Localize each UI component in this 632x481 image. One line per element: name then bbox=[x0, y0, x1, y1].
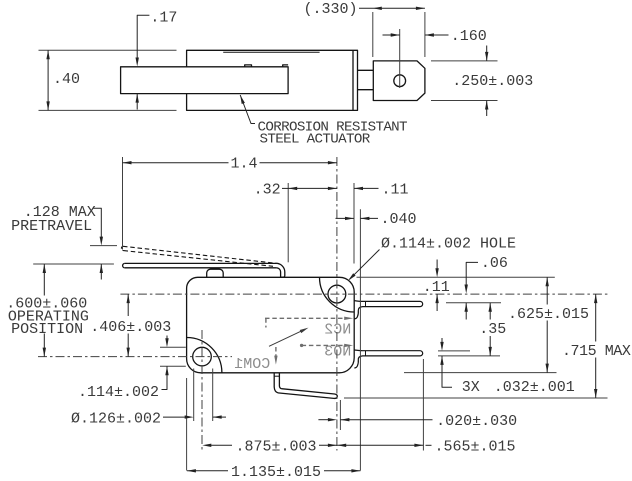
extension: NC pin top edge (for .06/.35) bbox=[446, 302, 501, 304]
main view: corner boss arc around mounting hole bbox=[187, 338, 222, 373]
main view: COM terminal neck below body bbox=[274, 373, 281, 393]
svg-text:.032±.001: .032±.001 bbox=[494, 379, 575, 396]
svg-text:.35: .35 bbox=[479, 321, 506, 338]
dim .250: extension lines bbox=[431, 60, 498, 62]
svg-text:Ø.114±.002 HOLE: Ø.114±.002 HOLE bbox=[381, 236, 516, 253]
svg-text:.565±.015: .565±.015 bbox=[435, 439, 516, 456]
dim 1.4: line with arrows bbox=[123, 162, 229, 164]
schematic: dashed line to NC terminal with arrow bbox=[265, 317, 349, 319]
svg-text:3X: 3X bbox=[462, 379, 480, 396]
centerline: terminal-side hole horizontal bbox=[120, 293, 608, 295]
extension: mounting hole top tangent (for .114) bbox=[160, 346, 186, 348]
main view: COM terminal collar tick bbox=[274, 375, 279, 377]
schematic: NO contact dot bbox=[300, 344, 303, 347]
svg-text:1.135±.015: 1.135±.015 bbox=[231, 464, 321, 481]
right terminal NO: neck upper curve bbox=[354, 349, 362, 352]
dim .32: line with arrows bbox=[282, 187, 288, 189]
dim .17: leader elbow and arrows bbox=[137, 15, 149, 58]
dim .11 (top): arrow and leader bbox=[354, 187, 379, 189]
dim .40: dimension line with arrows bbox=[47, 50, 49, 110]
dim .250: arrows bbox=[486, 46, 488, 61]
dim .128: leader elbow with down arrow bbox=[94, 208, 102, 238]
right terminal NO: pin base tick bbox=[365, 351, 367, 356]
svg-text:.114±.002: .114±.002 bbox=[78, 384, 159, 401]
dim .06: leader elbow with down arrow bbox=[466, 262, 478, 285]
dim (.330): dimension line and arrows bbox=[359, 7, 425, 9]
dim dia .114 hole: leader with arrow bbox=[350, 250, 380, 280]
svg-text:.11: .11 bbox=[423, 279, 450, 296]
top view: quick-connect terminal blade bbox=[373, 61, 425, 101]
svg-text:PRETRAVEL: PRETRAVEL bbox=[11, 218, 92, 235]
svg-text:1.4: 1.4 bbox=[231, 156, 258, 173]
extension: lever tip (for .32) bbox=[287, 183, 289, 262]
dim .128: up arrow at lever top line bbox=[100, 264, 102, 280]
right terminal NC: pin base tick bbox=[365, 301, 367, 306]
extension: lever top edge left (for .128/.600) bbox=[33, 263, 114, 265]
dim dia .126: arrows bbox=[163, 416, 186, 418]
right terminal NC: pin blade bbox=[363, 301, 423, 306]
dim 1.135: line with arrows bbox=[187, 470, 228, 472]
extension: lever curl outer edge (for .040/1.135) bbox=[359, 209, 361, 470]
top view: actuator hinge tab 2 bbox=[283, 65, 288, 67]
dim .020: arrows bbox=[318, 419, 329, 421]
extension: terminal pin tips (for .565) bbox=[422, 359, 424, 451]
dim .11 (right): up arrow to hole centerline bbox=[436, 294, 438, 311]
extension: body left edge down (for 1.135) bbox=[186, 378, 188, 471]
right terminal NO: pin blade bbox=[363, 351, 423, 356]
dim .06: up arrow below pin line bbox=[465, 303, 467, 320]
schematic: common movable blade with arrow bbox=[269, 329, 305, 346]
main view: terminal-side hole bbox=[328, 285, 346, 303]
dim .11 (right): down arrow to body top bbox=[436, 260, 438, 270]
right terminal NC: neck lower hook bbox=[354, 307, 362, 319]
dim .160: arrows and leader bbox=[383, 34, 400, 36]
right terminal NO: neck lower hook bbox=[354, 356, 362, 368]
extension: dashed lever top left (for .128) bbox=[90, 245, 117, 247]
main view: lever in max pretravel position (dashed) bbox=[123, 246, 279, 263]
extension: COM terminal bottom (for .715) bbox=[344, 397, 608, 399]
main view: corner boss arc around terminal-side hole bbox=[320, 277, 355, 312]
extension: NO pin bottom edge (for .35/3X .032) bbox=[438, 355, 500, 357]
top view: terminal neck bbox=[358, 70, 374, 89]
extension: COM terminal tip (for .020) bbox=[339, 400, 341, 430]
extension: mounting hole right edge (for dia .126) bbox=[212, 369, 214, 422]
svg-text:.040: .040 bbox=[381, 211, 417, 228]
main view: lever tip curl bbox=[276, 263, 285, 277]
svg-text:.40: .40 bbox=[53, 71, 80, 88]
main view: plunger button under lever bbox=[207, 269, 224, 277]
top view: body cover lip line bbox=[223, 51, 319, 53]
extension: mounting hole bottom tangent (for .114) bbox=[160, 365, 186, 367]
svg-text:POSITION: POSITION bbox=[11, 321, 83, 338]
extension: body right edge up (for .11/.040) bbox=[353, 183, 355, 264]
dim .114: down arrow bbox=[166, 336, 168, 340]
centerline: terminal-side hole vertical bbox=[336, 157, 338, 451]
dim .600: line with arrows bbox=[43, 264, 45, 296]
dim (.330): extension lines bbox=[372, 12, 374, 57]
main view: hinge lever (free position, solid) bbox=[125, 263, 277, 267]
schematic: dashed drop to COM terminal with arrow bbox=[275, 347, 277, 360]
svg-text:.160: .160 bbox=[451, 28, 487, 45]
svg-text:(.330): (.330) bbox=[304, 1, 358, 18]
dim 3X .032: arrows bbox=[441, 338, 443, 343]
svg-text:.715 MAX: .715 MAX bbox=[562, 343, 631, 360]
svg-text:Ø.126±.002: Ø.126±.002 bbox=[71, 410, 161, 427]
right terminal NC: neck upper curve bbox=[354, 300, 362, 303]
dim .406: line with arrows bbox=[127, 294, 129, 316]
main view: switch body outline bbox=[187, 277, 355, 373]
svg-text:.06: .06 bbox=[481, 255, 508, 272]
dim .040: arrows bbox=[336, 217, 355, 219]
extension: lever left end (for 1.4) bbox=[122, 157, 124, 250]
schematic: dashed line to NO terminal with arrow bbox=[302, 344, 349, 346]
main view: lever left rounded end bbox=[123, 263, 125, 267]
dim .114: up arrow and elbow to label bbox=[166, 366, 168, 383]
top view: body end-cap inner line bbox=[352, 50, 354, 110]
dim .40: extension lines bbox=[39, 49, 177, 51]
dim .160: extension line at hole center bbox=[399, 29, 401, 88]
dim .875: line with arrows bbox=[209, 444, 233, 446]
svg-text:.11: .11 bbox=[382, 181, 409, 198]
dim .35: line with arrows bbox=[489, 303, 491, 320]
main view: COM bent solder terminal bbox=[278, 389, 337, 399]
dim .565: line with arrows bbox=[337, 444, 423, 446]
svg-text:NC2: NC2 bbox=[324, 322, 351, 339]
leader: corrosion resistant steel actuator bbox=[240, 95, 255, 124]
dim .715 MAX: line with arrows bbox=[595, 294, 597, 341]
svg-text:.020±.030: .020±.030 bbox=[436, 413, 517, 430]
extension: body bottom edge right (for .625) bbox=[404, 372, 557, 374]
svg-text:.875±.003: .875±.003 bbox=[236, 439, 317, 456]
svg-text:STEEL ACTUATOR: STEEL ACTUATOR bbox=[260, 131, 371, 147]
top view: terminal hole bbox=[394, 75, 406, 87]
extension: mounting hole left edge (for dia .126) bbox=[193, 369, 195, 422]
svg-text:.250±.003: .250±.003 bbox=[452, 73, 533, 90]
svg-text:.32: .32 bbox=[254, 181, 281, 198]
top view: actuator bar (corrosion resistant steel actuator) bbox=[121, 67, 289, 94]
centerline: mounting hole horizontal bbox=[38, 356, 232, 358]
centerline: mounting hole vertical bbox=[201, 330, 203, 451]
svg-text:.406±.003: .406±.003 bbox=[90, 319, 171, 336]
top view: actuator hinge tab 1 bbox=[245, 65, 252, 67]
main view: mounting hole dia .126 bbox=[193, 347, 212, 366]
svg-text:.17: .17 bbox=[150, 10, 177, 27]
dim .625: line with arrows bbox=[546, 277, 548, 304]
extension: body top edge right (for .11/.625) bbox=[357, 276, 555, 278]
svg-text:.625±.015: .625±.015 bbox=[508, 306, 589, 323]
svg-text:COM1: COM1 bbox=[234, 356, 270, 373]
extension: NO pin top edge (for 3X .032) bbox=[438, 350, 470, 352]
schematic: dashed elbow at NC contact bbox=[265, 318, 267, 327]
top view: switch body (side silhouette) bbox=[187, 50, 358, 110]
